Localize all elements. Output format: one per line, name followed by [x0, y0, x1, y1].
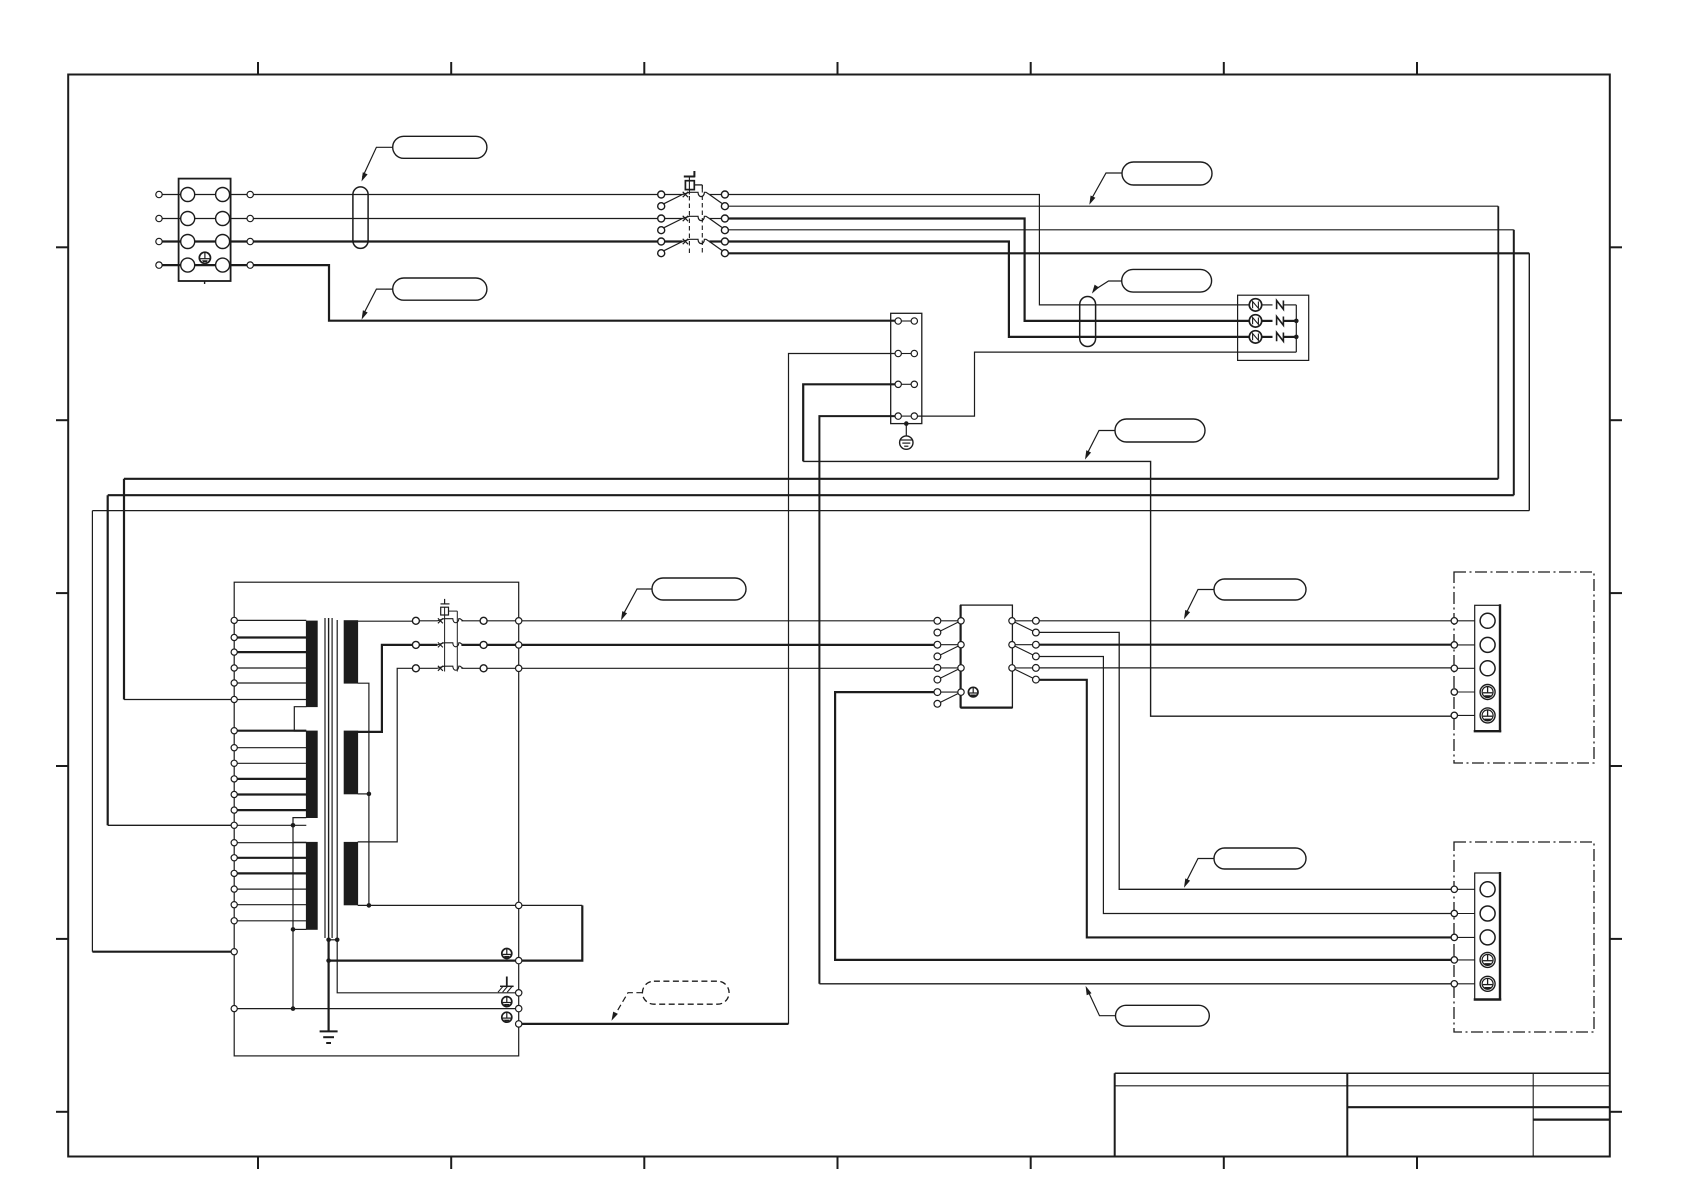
pin CN1 left edge y620.8: [958, 618, 964, 624]
pin TB2 row3 right: [911, 381, 917, 387]
pin CN1 right edge y667.9: [1009, 665, 1015, 671]
wire primary tap P2-2: [237, 747, 306, 749]
connector CN2 terminal strip: [1475, 605, 1500, 731]
transformer T1 primary winding 2: [306, 731, 317, 818]
transformer T1 secondary winding 3: [344, 842, 358, 905]
pin TB1 row4 right: [247, 262, 253, 268]
wire primary tap P3-3: [237, 872, 306, 874]
indicator lamp H3: [1249, 331, 1261, 343]
indicator lamp H1: [1249, 299, 1261, 311]
wire TB2 row4 down: [819, 416, 895, 984]
wire CN1 to CN2 pin2: [1039, 644, 1454, 646]
junction dot secondary common S2: [367, 792, 372, 797]
leader line dashed callout: [614, 993, 643, 1017]
pin CN1 left outer lower y667.9: [934, 676, 941, 683]
ground symbol T1: [320, 1030, 338, 1032]
pin CN1 right outer lower y644.7: [1033, 653, 1040, 660]
terminal TB1 row1 B: [216, 188, 230, 202]
wire CN2 pin2 stub: [1458, 644, 1475, 646]
pins T1 left edge: [231, 617, 237, 623]
leader arrow callout W1: [362, 172, 368, 181]
wire transformer neutral to pins: [237, 1008, 515, 1010]
wire Q1 L3 to lamp H3: [728, 242, 1249, 337]
pin TB2 row4 left: [895, 413, 901, 419]
pin CN2 4: [1451, 689, 1457, 695]
wire CN2 pin5 stub: [1458, 714, 1475, 716]
callout balloon label N-wire: [393, 278, 487, 300]
wire CN3 pin5 stub: [1458, 983, 1475, 985]
pin CN1 right outer lower y620.8: [1033, 629, 1040, 636]
wire primary tap P3-5: [237, 904, 306, 906]
leader arrow callout control wire: [1085, 450, 1091, 459]
leader line callout CN2 cable: [1185, 590, 1214, 616]
breaker Q1 operator symbol: [684, 176, 695, 178]
wire CN3 pin1 stub: [1458, 888, 1475, 890]
wire TB1 row4 internal link: [195, 264, 216, 266]
wire CN1 to CN2 pin3: [1039, 667, 1454, 669]
terminal Q1 pole y218.5: [721, 215, 728, 222]
fuse element F2: [1277, 317, 1284, 326]
wire primary tap P3-4: [237, 888, 306, 890]
leader line callout W2: [1094, 281, 1122, 290]
connector CN1 body: [961, 605, 1013, 708]
pin CN2 5: [1451, 712, 1457, 718]
chassis symbol at T1 screen pin: [506, 977, 508, 987]
lamp common bus: [1295, 305, 1297, 352]
pin CN1 left edge y692.1: [958, 689, 964, 695]
pin TB1 row3 right: [247, 238, 253, 244]
wire TB1 row2 internal link: [195, 218, 216, 220]
pin TB1 row2 right: [247, 215, 253, 221]
wire TB1 row1 left stub: [162, 194, 181, 196]
leader arrow callout TB2 row4 wire: [1086, 986, 1092, 995]
wire CN1 to CN3 pin2: [1039, 657, 1454, 914]
frame tick marks bottom edge: [257, 1157, 259, 1170]
wire CN1 earth loop to CN3 pin4: [835, 692, 1454, 960]
wire primary series link 1-2: [294, 707, 306, 731]
terminal Q1 pole lower y194.5: [658, 203, 665, 210]
leader arrow callout CN2 cable: [1184, 610, 1190, 619]
connector CN1 right pin wires: [1015, 620, 1032, 622]
fuse element F1: [1277, 301, 1284, 310]
pin TB1 row2 left: [156, 215, 162, 221]
leader arrow callout CN3 cable: [1184, 878, 1190, 887]
transformer core line A: [324, 618, 326, 938]
terminal TB1 row3 A: [181, 235, 195, 249]
wire primary tap P1-6: [237, 699, 306, 701]
pin CN1 right outer y620.8: [1033, 617, 1040, 624]
wire Q1 L1 to lamp H1: [728, 195, 1249, 305]
wire fuse F2 to common bus: [1283, 320, 1296, 322]
terminal Q1 pole y194.5: [658, 191, 665, 198]
wire primary tap P2-4: [237, 778, 306, 780]
pin T1 PE input: [231, 949, 237, 955]
pin CN1 left outer lower y644.7: [934, 653, 941, 660]
pin CN1 right edge y644.7: [1009, 642, 1015, 648]
wire TB1 row4 left stub: [162, 264, 181, 266]
pin TB1 row1 right: [247, 191, 253, 197]
pin CN1 left outer lower y692.1: [934, 700, 941, 707]
earth symbol at T1 bond pin: [502, 949, 512, 959]
terminal TB1 row3 B: [216, 235, 230, 249]
pin CN1 left edge y667.9: [958, 665, 964, 671]
pin TB1 row4 left: [156, 262, 162, 268]
transformer shield line (earthed): [328, 618, 330, 940]
callout balloon feeder wires: [1122, 162, 1212, 185]
terminal Q2 out y620.8: [480, 617, 487, 624]
wire secondary S2 top tap to Q2: [358, 645, 413, 732]
wire TB2 row4 to CN3 pin5: [819, 983, 1454, 985]
wire N TB1 row4 to TB2 row1: [253, 265, 895, 321]
terminal Q2 in y668.3: [412, 665, 419, 672]
wire transformer aux pin feed: [522, 1023, 789, 1025]
pin CN1 left outer y667.9: [934, 665, 941, 672]
pin CN3 5: [1451, 981, 1457, 987]
wire Q1 L2 to lamp H2: [728, 219, 1249, 321]
leader line callout TB2 row4 wire: [1087, 990, 1115, 1016]
wire TB2 row3 control: [803, 384, 895, 461]
terminal TB1 row2 A: [181, 212, 195, 226]
pin CN1 left outer lower y620.8: [934, 629, 941, 636]
terminal Q2 in y620.8: [412, 617, 419, 624]
terminal TB1 row4 A: [181, 258, 195, 272]
transformer T1 primary winding 3: [306, 842, 317, 929]
callout balloon label W1: [393, 136, 487, 158]
wire TB1 row2 right stub: [230, 218, 248, 220]
wire TB1 row3 right stub: [230, 240, 248, 242]
terminal CN3 1: [1480, 882, 1495, 897]
wire Q1 L3b feeder loop to transformer tap: [728, 252, 1529, 254]
wire CN2 pin4 stub: [1458, 691, 1475, 693]
transformer core line B: [331, 618, 333, 938]
terminal CN2 1: [1480, 613, 1495, 628]
wire lamp H3 to fuse: [1262, 336, 1273, 338]
junction dot earth bond: [326, 958, 331, 963]
wire primary tap P1-2: [237, 636, 306, 638]
transformer T1 secondary winding 1: [344, 621, 358, 684]
pin CN1 left edge y644.7: [958, 642, 964, 648]
connector CN2 outline (remote unit 1): [1454, 572, 1594, 763]
wire earth bond to pin: [329, 959, 516, 961]
wire TB1 row1 right stub: [230, 194, 248, 196]
frame tick marks left edge: [56, 246, 68, 248]
pin CN1 left outer y692.1: [934, 689, 941, 696]
leader line callout control wire: [1086, 431, 1115, 456]
wire TB2 earth stem: [905, 424, 907, 436]
terminal TB1 row2 B: [216, 212, 230, 226]
terminal TB1 row4 B: [216, 258, 230, 272]
fuse element F3: [1277, 333, 1284, 342]
callout balloon label control wire: [1115, 419, 1205, 442]
breaker Q1 linkage dashed lines: [688, 196, 690, 255]
terminal CN2 2: [1480, 637, 1495, 652]
wire L2 TB1 to Q1: [253, 218, 657, 220]
wire CN1 to CN3 pin1: [1039, 632, 1454, 889]
terminal Q1 pole lower y218.5: [658, 227, 665, 234]
leader line callout N-wire: [363, 289, 393, 315]
wire primary tap P2-1: [237, 730, 306, 732]
junction dot neutral rail w3: [291, 927, 296, 932]
pin CN2 2: [1451, 642, 1457, 648]
breaker Q2 operator symbol: [441, 603, 450, 605]
earth terminal CN3 4: [1480, 952, 1495, 967]
terminal Q2 out y668.3: [480, 665, 487, 672]
wire CN2 pin3 stub: [1458, 667, 1475, 669]
pin CN1 right outer y667.9: [1033, 665, 1040, 672]
junction dot lamp bus row3: [1294, 335, 1299, 340]
wire TB2 row2 internal link: [901, 353, 911, 355]
terminal Q1 pole lower y241.5: [721, 250, 728, 257]
pin CN1 right outer y644.7: [1033, 641, 1040, 648]
terminal block TB1 (incoming supply): [179, 179, 231, 281]
earth terminal CN2 4: [1480, 685, 1495, 700]
earth symbol at T1 neutral pin: [502, 997, 512, 1007]
terminal Q2 out y644.9: [480, 641, 487, 648]
pin TB2 row4 right: [911, 413, 917, 419]
terminal CN3 3: [1480, 930, 1495, 945]
wire primary tap P1-4: [237, 667, 306, 669]
terminal block TB2: [891, 313, 922, 423]
breaker Q2 linkage lines: [444, 615, 446, 672]
transformer T1 secondary winding 2: [344, 731, 358, 794]
terminal Q1 pole lower y241.5: [658, 250, 665, 257]
wire TB1 row1 internal link: [195, 194, 216, 196]
pin TB2 row3 left: [895, 381, 901, 387]
wire lamp H1 to fuse: [1262, 304, 1273, 306]
wire TB2 row3 internal link: [901, 383, 911, 385]
wire L1 TB1 to Q1: [253, 194, 657, 196]
connector CN3 outline (remote unit 2): [1454, 842, 1594, 1032]
wire Q1 L1b feeder loop to transformer tap: [728, 205, 1498, 207]
leader arrow callout N-wire: [362, 310, 368, 319]
pin CN3 3: [1451, 934, 1457, 940]
indicator lamp box H1-H3: [1238, 295, 1309, 360]
pin CN3 2: [1451, 910, 1457, 916]
wire fuse F1 to common bus: [1283, 304, 1296, 306]
terminal Q1 pole y194.5: [721, 191, 728, 198]
wire primary tap P2-7: [237, 824, 306, 826]
wire lamp common to TB2 row4: [918, 352, 1297, 416]
pin CN1 right edge y620.8: [1009, 618, 1015, 624]
wire Q1 L2b feeder loop to transformer tap: [728, 229, 1513, 231]
callout balloon T1 output: [652, 578, 746, 600]
junction dot lamp bus row2: [1294, 319, 1299, 324]
terminal CN2 3: [1480, 661, 1495, 676]
wire primary tap P3-1: [237, 842, 306, 844]
wire CN3 pin3 stub: [1458, 936, 1475, 938]
transformer T1 primary winding 1: [306, 621, 317, 707]
terminal Q1 pole y241.5: [658, 238, 665, 245]
wire primary tap P1-5: [237, 682, 306, 684]
junction dot secondary common S3: [367, 903, 372, 908]
pin CN2 1: [1451, 618, 1457, 624]
wire TB1 row4 right stub: [230, 264, 248, 266]
leader arrow callout T1 output: [621, 611, 627, 620]
wire TB1 row3 left stub: [162, 240, 181, 242]
pin CN3 4: [1451, 957, 1457, 963]
pin T1 neutral left: [231, 1006, 237, 1012]
wire TB1 row2 left stub: [162, 218, 181, 220]
circuit breaker Q2: [419, 620, 437, 622]
pin CN3 1: [1451, 886, 1457, 892]
pin TB2 row1 left: [895, 318, 901, 324]
circuit breaker Q1: [665, 194, 683, 196]
callout balloon (dashed, optional item): [642, 981, 729, 1004]
wire secondary S3 top tap to Q2: [358, 668, 413, 842]
terminal CN3 2: [1480, 906, 1495, 921]
earth symbol CN1: [968, 687, 978, 697]
wire control loop to CN2 pin5: [803, 461, 1454, 716]
wire jumper loop secondary common to earth pin: [522, 904, 582, 906]
wire primary tap P1-1: [237, 619, 306, 621]
pin CN1 left outer y644.7: [934, 641, 941, 648]
leader arrow callout W2: [1092, 285, 1099, 294]
pin TB2 row2 right: [911, 350, 917, 356]
wire primary tap P2-3: [237, 762, 306, 764]
wire L3 TB1 to Q1: [253, 240, 657, 242]
cable marker W1: [353, 187, 368, 249]
callout balloon CN3 cable: [1214, 848, 1306, 869]
wire lamp H2 to fuse: [1262, 320, 1273, 322]
earth symbol at T1 aux pin: [502, 1012, 512, 1022]
earth stem and bonding inside T1: [328, 940, 330, 1032]
wire TB2 row4 internal link: [901, 415, 911, 417]
frame tick marks top edge: [257, 62, 259, 75]
pin CN2 3: [1451, 665, 1457, 671]
junction dot neutral rail bottom: [291, 1006, 296, 1011]
wire secondary common to pin: [358, 904, 516, 906]
wire primary tap P1-3: [237, 651, 306, 653]
wire TB1 row3 internal link: [195, 240, 216, 242]
callout balloon CN2 cable: [1214, 579, 1306, 600]
pin CN1 right outer lower y667.9: [1033, 676, 1040, 683]
earth symbol below TB2: [900, 436, 913, 449]
wire primary tap P3-2: [237, 857, 306, 859]
leader line callout W1: [363, 147, 393, 177]
pin TB1 row3 left: [156, 238, 162, 244]
junction dot neutral rail tap: [291, 823, 296, 828]
leader line callout CN3 cable: [1185, 859, 1214, 884]
terminal Q1 pole lower y194.5: [721, 203, 728, 210]
pin TB2 row2 left: [895, 350, 901, 356]
leader arrow dashed callout: [612, 1012, 618, 1021]
wire CN3 pin4 stub: [1458, 959, 1475, 961]
terminal Q1 pole y241.5: [721, 238, 728, 245]
pins T1 right edge: [516, 618, 522, 624]
wire primary tap P3-6: [237, 920, 306, 922]
transformer screen line to chassis pin: [337, 620, 515, 993]
title block: [1115, 1072, 1610, 1074]
junction dot TB2 earth: [904, 421, 909, 426]
connector CN1 left pin wires: [941, 620, 958, 622]
earth symbol in TB1: [199, 252, 210, 263]
frame tick marks right edge: [1610, 246, 1622, 248]
leader arrow callout feeder: [1089, 196, 1095, 205]
terminal Q1 pole y218.5: [658, 215, 665, 222]
wire CN2 pin1 stub: [1458, 620, 1475, 622]
wire primary tap P2-6: [237, 809, 306, 811]
leader line callout feeder: [1091, 173, 1122, 201]
earth terminal CN3 5: [1480, 976, 1495, 991]
wire TB2 row2 to transformer aux: [789, 354, 895, 1024]
pin CN1 left outer y620.8: [934, 617, 941, 624]
wire secondary S1 top tap to Q2: [358, 620, 413, 622]
pin TB1 row1 left: [156, 191, 162, 197]
wire TB2 row1 internal link: [901, 320, 911, 322]
terminal Q1 pole lower y218.5: [721, 227, 728, 234]
terminal Q2 in y644.9: [412, 641, 419, 648]
callout balloon TB2 row4 wire: [1116, 1005, 1210, 1026]
earth terminal CN2 5: [1480, 708, 1495, 723]
cable marker W2: [1080, 297, 1096, 347]
wire CN1 to CN2 pin1: [1039, 620, 1454, 622]
transformer T1 enclosure: [234, 582, 519, 1056]
wire CN1 to CN3 pin3: [1039, 680, 1454, 938]
wire CN3 pin2 stub: [1458, 913, 1475, 915]
pin TB2 row1 right: [911, 318, 917, 324]
wire fuse F3 to common bus: [1283, 336, 1296, 338]
wire secondary common rail: [358, 683, 369, 905]
connector CN3 terminal strip: [1475, 873, 1500, 1000]
wire primary series link 2-3 and neutral rail: [293, 818, 306, 1009]
callout balloon label W2: [1122, 269, 1212, 292]
terminal TB1 row1 A: [181, 188, 195, 202]
TB1 bottom index mark: [204, 281, 206, 284]
indicator lamp H2: [1249, 315, 1261, 327]
wire primary tap P2-5: [237, 793, 306, 795]
leader line callout T1 output: [622, 589, 652, 616]
